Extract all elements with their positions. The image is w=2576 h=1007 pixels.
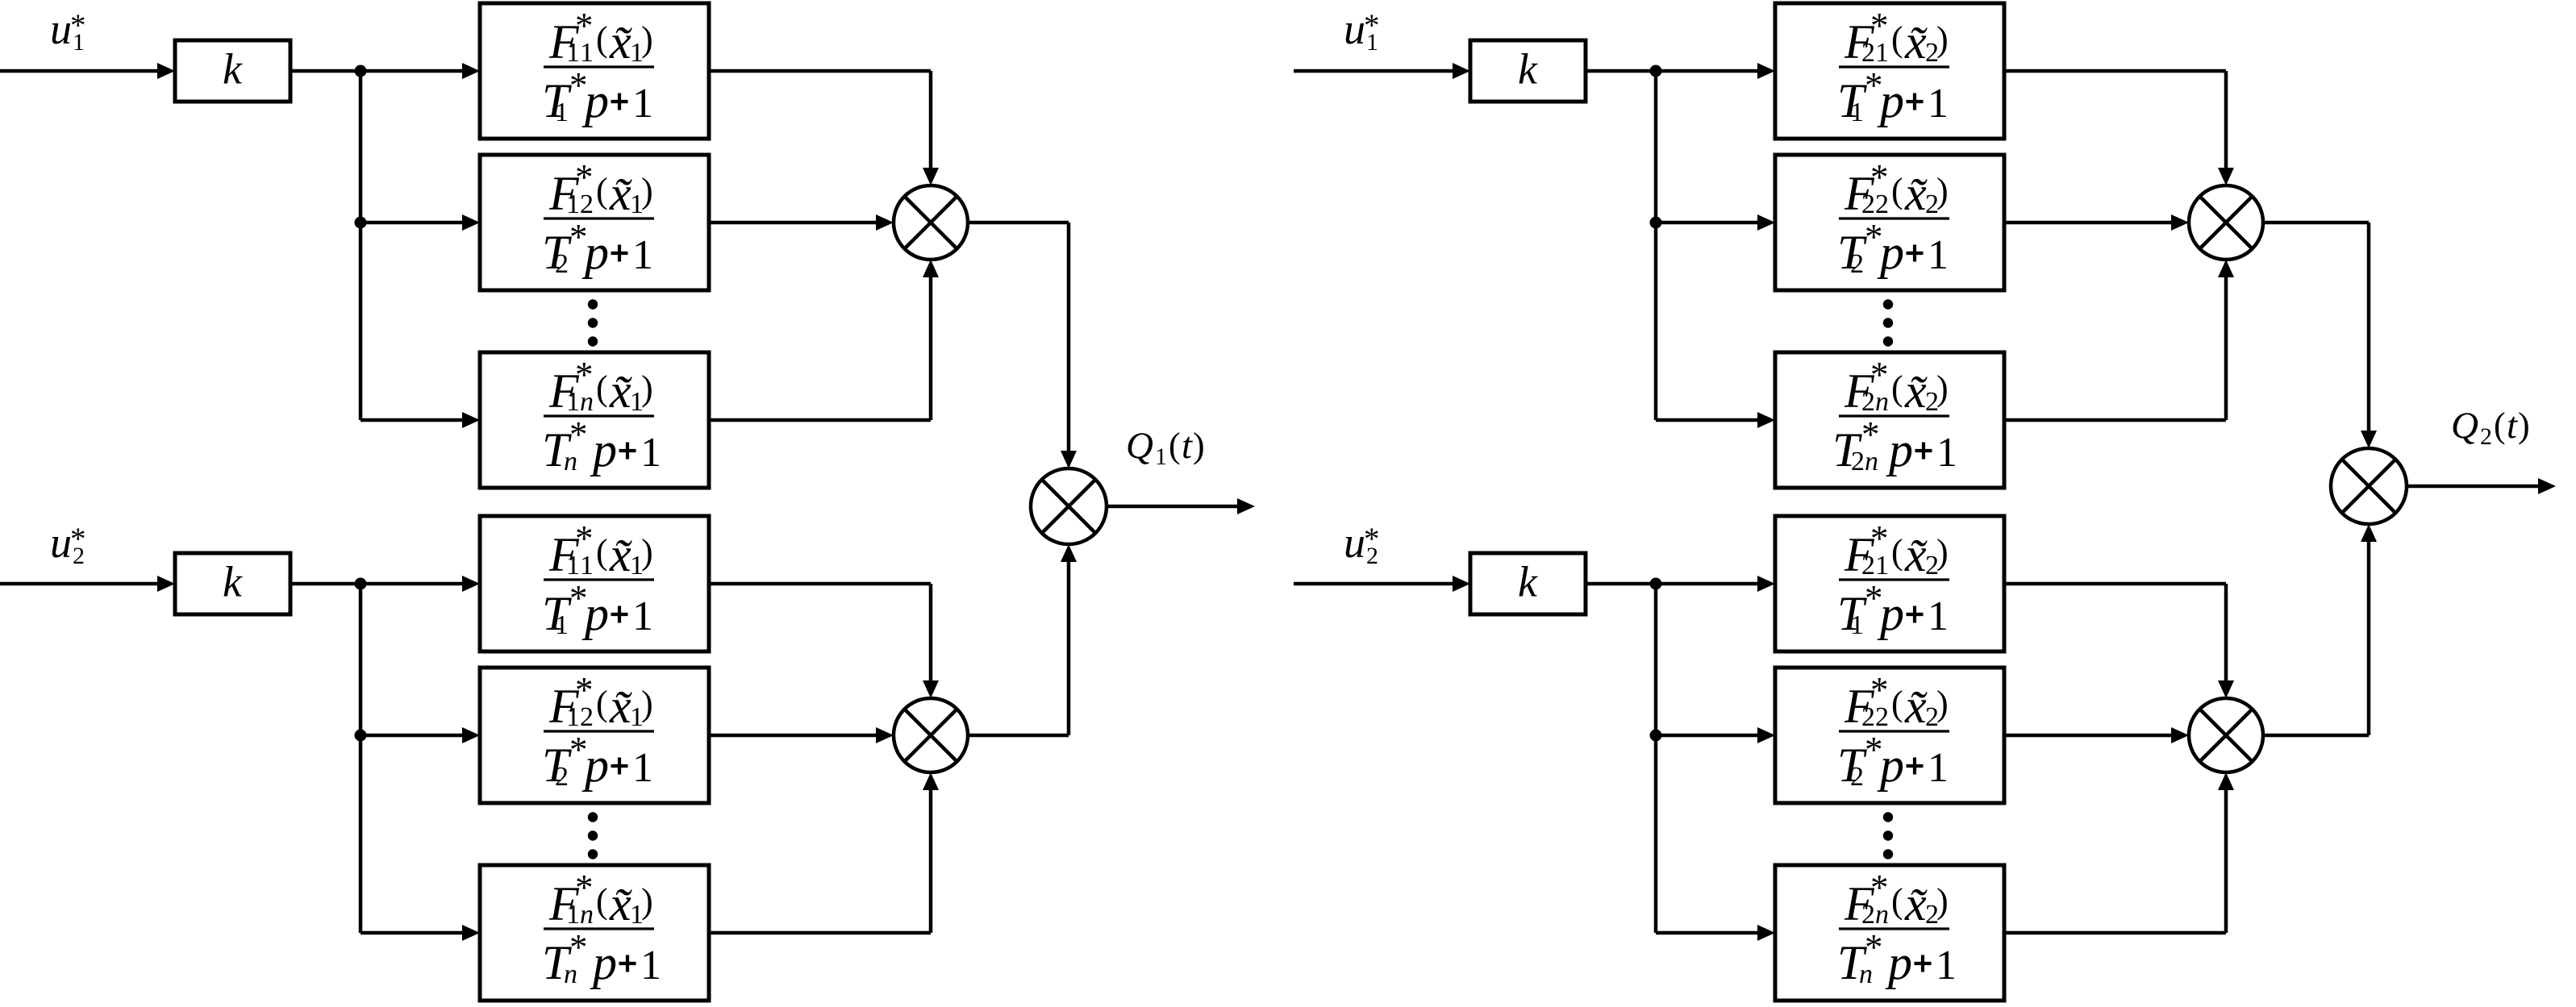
svg-text:1: 1 bbox=[1928, 593, 1949, 639]
svg-text:p: p bbox=[1886, 423, 1913, 476]
svg-text:2: 2 bbox=[1850, 762, 1864, 792]
svg-text:p: p bbox=[1877, 226, 1904, 279]
svg-text:(: ( bbox=[1891, 19, 1903, 59]
svg-text:t: t bbox=[1182, 425, 1193, 467]
svg-text:Q: Q bbox=[1126, 425, 1153, 467]
svg-text:p: p bbox=[581, 74, 609, 127]
svg-text:1: 1 bbox=[1155, 443, 1167, 470]
svg-text:1: 1 bbox=[632, 232, 653, 278]
svg-text:*: * bbox=[1870, 6, 1889, 46]
svg-text:*: * bbox=[1364, 522, 1380, 556]
svg-text:p: p bbox=[1877, 587, 1904, 640]
svg-text:): ) bbox=[1936, 881, 1949, 921]
svg-text:x̃: x̃ bbox=[1904, 15, 1928, 69]
svg-text:x̃: x̃ bbox=[1904, 680, 1928, 733]
svg-text:*: * bbox=[1870, 670, 1889, 710]
svg-text:1: 1 bbox=[1928, 745, 1949, 791]
svg-text:u: u bbox=[50, 5, 72, 53]
svg-text:(: ( bbox=[596, 881, 608, 921]
svg-text:(: ( bbox=[1891, 532, 1903, 572]
svg-text:p: p bbox=[1885, 936, 1912, 989]
svg-text:*: * bbox=[575, 670, 594, 710]
svg-text:(: ( bbox=[596, 171, 608, 210]
svg-text:): ) bbox=[2518, 406, 2530, 445]
svg-text:): ) bbox=[1936, 532, 1949, 572]
svg-text:1: 1 bbox=[1850, 98, 1864, 127]
svg-text:x̃: x̃ bbox=[1904, 528, 1928, 581]
svg-text:(: ( bbox=[1891, 684, 1903, 723]
svg-text:1: 1 bbox=[1936, 430, 1957, 476]
svg-text:p: p bbox=[590, 423, 617, 476]
svg-text:2: 2 bbox=[2480, 423, 2492, 450]
svg-text:k: k bbox=[1518, 558, 1538, 606]
svg-text:p: p bbox=[581, 226, 609, 279]
svg-text:*: * bbox=[569, 927, 588, 967]
svg-text:): ) bbox=[641, 368, 653, 408]
svg-text:x̃: x̃ bbox=[1904, 877, 1928, 930]
svg-text:(: ( bbox=[2494, 406, 2506, 445]
svg-text:): ) bbox=[641, 684, 653, 723]
svg-text:p: p bbox=[1877, 74, 1904, 127]
svg-text:): ) bbox=[1193, 426, 1205, 465]
svg-text:x̃: x̃ bbox=[609, 528, 632, 581]
svg-text:*: * bbox=[1364, 8, 1380, 43]
svg-text:*: * bbox=[575, 868, 594, 908]
svg-text:*: * bbox=[70, 522, 86, 556]
svg-text:k: k bbox=[223, 45, 243, 94]
svg-text:*: * bbox=[70, 8, 86, 43]
svg-text:1: 1 bbox=[640, 430, 661, 476]
svg-text:(: ( bbox=[1169, 426, 1181, 465]
svg-text:p: p bbox=[581, 587, 609, 640]
svg-text:*: * bbox=[1861, 414, 1880, 455]
svg-text:): ) bbox=[641, 171, 653, 210]
svg-text:x̃: x̃ bbox=[609, 877, 632, 930]
svg-text:*: * bbox=[575, 6, 594, 46]
svg-text:u: u bbox=[1344, 5, 1365, 53]
svg-text:(: ( bbox=[596, 532, 608, 572]
svg-text:k: k bbox=[223, 558, 243, 606]
svg-text:1: 1 bbox=[555, 610, 569, 640]
svg-text:(: ( bbox=[596, 19, 608, 59]
svg-text:x̃: x̃ bbox=[1904, 167, 1928, 220]
svg-text:*: * bbox=[569, 414, 588, 455]
svg-text:): ) bbox=[1936, 684, 1949, 723]
svg-text:*: * bbox=[1870, 518, 1889, 559]
svg-text:2: 2 bbox=[1850, 249, 1864, 279]
svg-text:k: k bbox=[1518, 45, 1538, 94]
svg-text:(: ( bbox=[1891, 368, 1903, 408]
svg-text:(: ( bbox=[596, 368, 608, 408]
svg-text:): ) bbox=[1936, 171, 1949, 210]
svg-text:u: u bbox=[50, 518, 72, 567]
svg-text:1: 1 bbox=[632, 81, 653, 127]
svg-text:1: 1 bbox=[1936, 943, 1957, 988]
svg-text:2: 2 bbox=[555, 762, 569, 792]
svg-text:): ) bbox=[641, 532, 653, 572]
svg-text:1: 1 bbox=[632, 745, 653, 791]
svg-text:1: 1 bbox=[1928, 232, 1949, 278]
svg-text:1: 1 bbox=[1850, 610, 1864, 640]
svg-text:): ) bbox=[641, 19, 653, 59]
svg-text:*: * bbox=[1865, 927, 1883, 967]
svg-text:x̃: x̃ bbox=[609, 364, 632, 418]
svg-text:x̃: x̃ bbox=[609, 167, 632, 220]
svg-text:t: t bbox=[2507, 405, 2518, 447]
svg-text:): ) bbox=[1936, 368, 1949, 408]
svg-text:*: * bbox=[1870, 868, 1889, 908]
svg-text:*: * bbox=[1870, 355, 1889, 395]
svg-text:u: u bbox=[1344, 518, 1365, 567]
svg-text:(: ( bbox=[1891, 881, 1903, 921]
svg-text:2: 2 bbox=[555, 249, 569, 279]
svg-text:1: 1 bbox=[632, 593, 653, 639]
svg-text:*: * bbox=[575, 355, 594, 395]
svg-text:(: ( bbox=[596, 684, 608, 723]
svg-text:(: ( bbox=[1891, 171, 1903, 210]
svg-text:p: p bbox=[1877, 739, 1904, 792]
svg-text:): ) bbox=[641, 881, 653, 921]
svg-text:1: 1 bbox=[1928, 81, 1949, 127]
svg-text:1: 1 bbox=[555, 98, 569, 127]
svg-text:*: * bbox=[575, 518, 594, 559]
svg-text:x̃: x̃ bbox=[1904, 364, 1928, 418]
svg-text:p: p bbox=[581, 739, 609, 792]
svg-text:x̃: x̃ bbox=[609, 15, 632, 69]
svg-text:1: 1 bbox=[640, 943, 661, 988]
svg-text:p: p bbox=[590, 936, 617, 989]
svg-text:Q: Q bbox=[2451, 405, 2478, 447]
svg-text:*: * bbox=[1870, 157, 1889, 198]
svg-text:x̃: x̃ bbox=[609, 680, 632, 733]
svg-text:*: * bbox=[575, 157, 594, 198]
svg-text:): ) bbox=[1936, 19, 1949, 59]
